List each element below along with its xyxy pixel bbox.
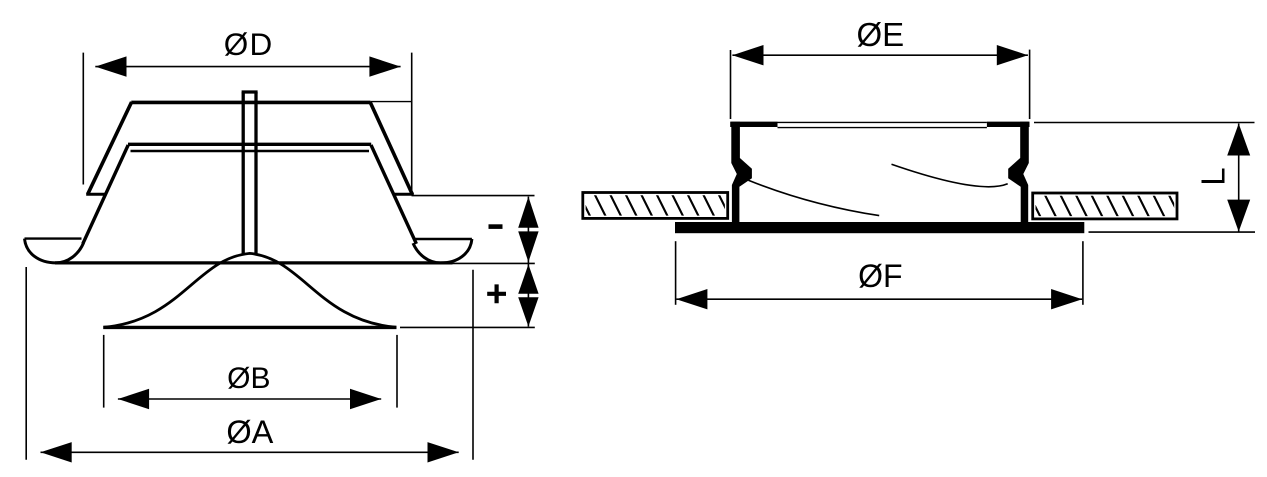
plus arrow down: [518, 297, 538, 326]
dim ØE arrow left: [732, 45, 763, 65]
dim ØB arrow right: [350, 389, 381, 409]
dim L dimension line: [1238, 124, 1240, 232]
stem right wall: [254, 92, 257, 255]
svg-text:ØE: ØE: [856, 16, 904, 53]
label plus: [487, 284, 506, 303]
inner ring upper line: [128, 143, 371, 146]
rim cup left top edge: [25, 237, 82, 239]
duct top-left bar: [730, 122, 777, 127]
dim L arrow up: [1227, 124, 1250, 156]
dim L arrow down: [1227, 200, 1250, 232]
dim ØD arrow left: [95, 56, 126, 76]
dim ØA extension right: [472, 270, 474, 460]
inner ring lower line: [131, 150, 370, 152]
dim ØF extension left: [675, 241, 677, 305]
shroud bottom step right: [394, 193, 414, 196]
bell dome curve: [104, 253, 397, 327]
plus-minus top extension line: [412, 195, 535, 197]
hatch right panel: [1028, 192, 1182, 220]
bell bottom edge: [103, 326, 396, 329]
hatch left panel: [578, 192, 732, 220]
ceiling panel right: [1033, 193, 1177, 219]
dim L bottom extension: [1089, 231, 1256, 233]
dim ØD extension line right: [411, 53, 413, 193]
dim ØA arrow left: [41, 442, 72, 462]
dim ØE arrow right: [997, 45, 1028, 65]
bottom rim thin extension to plus-minus dim: [453, 262, 535, 264]
minus arrow down: [518, 231, 538, 262]
dim ØA arrow right: [428, 442, 459, 462]
dim ØB dimension line: [118, 398, 381, 400]
svg-text:ØF: ØF: [858, 258, 902, 294]
spring wire left: [748, 180, 879, 215]
svg-text:L: L: [1195, 167, 1232, 185]
dim ØE extension right: [1029, 50, 1031, 119]
dim ØE extension left: [730, 50, 732, 119]
spring wire right: [892, 164, 1008, 186]
duct top thin line 2: [778, 127, 987, 129]
dim ØF arrow left: [676, 289, 707, 309]
plus-minus dimension line: [527, 197, 529, 327]
outer shroud top plate: [131, 101, 370, 105]
dim ØA extension left: [25, 267, 27, 460]
stem left wall: [242, 92, 245, 255]
duct left wall with bead: [731, 122, 752, 223]
shroud bottom step left: [86, 193, 106, 196]
rim cup right top edge: [415, 238, 472, 240]
dim ØD arrow right: [369, 56, 400, 76]
svg-text:ØB: ØB: [227, 362, 270, 395]
dim ØF extension right: [1082, 241, 1084, 305]
rim cup right curve: [413, 239, 472, 263]
dim ØF arrow right: [1051, 289, 1082, 309]
duct right wall with bead: [1008, 122, 1029, 223]
plus arrow up: [518, 264, 538, 294]
dim ØE dimension line: [732, 54, 1028, 56]
svg-text:ØA: ØA: [226, 414, 273, 450]
dim ØB arrow left: [118, 389, 149, 409]
dim ØD extension line left: [82, 53, 84, 185]
cone slant lower right: [371, 145, 416, 244]
top plate thin extension to right ext line: [370, 101, 411, 103]
bottom rim line: [55, 261, 453, 264]
svg-text:ØD: ØD: [224, 26, 272, 62]
dim ØD dimension line: [95, 66, 400, 68]
dim ØB extension left: [103, 335, 105, 408]
outer shroud slant right: [370, 102, 412, 194]
ceiling panel left: [583, 193, 728, 219]
stem cap: [242, 90, 258, 93]
rim cup left curve: [25, 239, 84, 263]
duct top thin line 1: [778, 121, 987, 123]
dim ØB extension right: [396, 335, 398, 408]
plus-minus bottom extension line: [400, 326, 535, 328]
outer shroud slant left: [88, 102, 132, 194]
minus arrow up: [518, 197, 538, 228]
label minus: [489, 224, 503, 229]
duct top-right bar: [987, 122, 1030, 127]
dim ØF dimension line: [676, 298, 1082, 300]
dim ØA dimension line: [41, 451, 459, 453]
bottom flange bar: [675, 222, 1084, 233]
dim L top extension: [1034, 122, 1255, 124]
cone slant lower left: [83, 145, 128, 244]
